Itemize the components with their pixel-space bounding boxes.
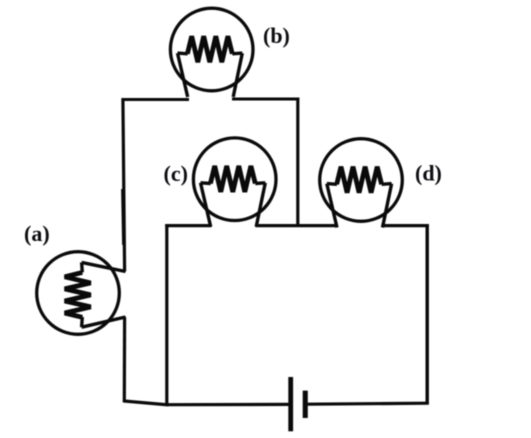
wire: left vertical lower (lamp A down to bottom rail) [123, 317, 126, 402]
svg-text:(a): (a) [24, 221, 50, 246]
wire: middle rail segment right (right of lamp D) [382, 224, 429, 227]
lamp D (bulb symbol, middle-right) [320, 139, 403, 228]
wire: left vertical upper (top rail down to lamp A) [123, 98, 125, 272]
lamp B (bulb symbol, top) [170, 8, 253, 97]
wire: loop left edge vertical [165, 224, 168, 406]
lamp A (bulb symbol, left, rotated) [37, 252, 126, 335]
wire: middle rail segment left (rect top edge, left of lamp C) [165, 224, 211, 227]
wire: right vertical from lamp B down to middle rail [296, 98, 299, 228]
wire: bottom rail left of battery [167, 403, 289, 407]
lamp C (bulb symbol, middle-left) [193, 138, 276, 227]
wire: bottom rail right of battery [308, 403, 429, 404]
wire: bottom-left connector to battery loop [123, 401, 168, 405]
wire: loop right edge vertical [426, 224, 429, 404]
wire: overlap stroke on left vertical [122, 189, 123, 245]
wire: top-left horizontal from left branch to lamp B [122, 98, 189, 101]
svg-text:(d): (d) [415, 160, 442, 185]
battery positive plate (long bar) [288, 377, 293, 431]
wire: top-right horizontal from lamp B to right vertical [232, 98, 299, 101]
wire: middle rail segment center (between lamp C and lamp D) [256, 224, 338, 227]
battery negative plate (short bar) [303, 391, 308, 418]
svg-text:(c): (c) [164, 161, 188, 186]
svg-text:(b): (b) [263, 23, 290, 48]
